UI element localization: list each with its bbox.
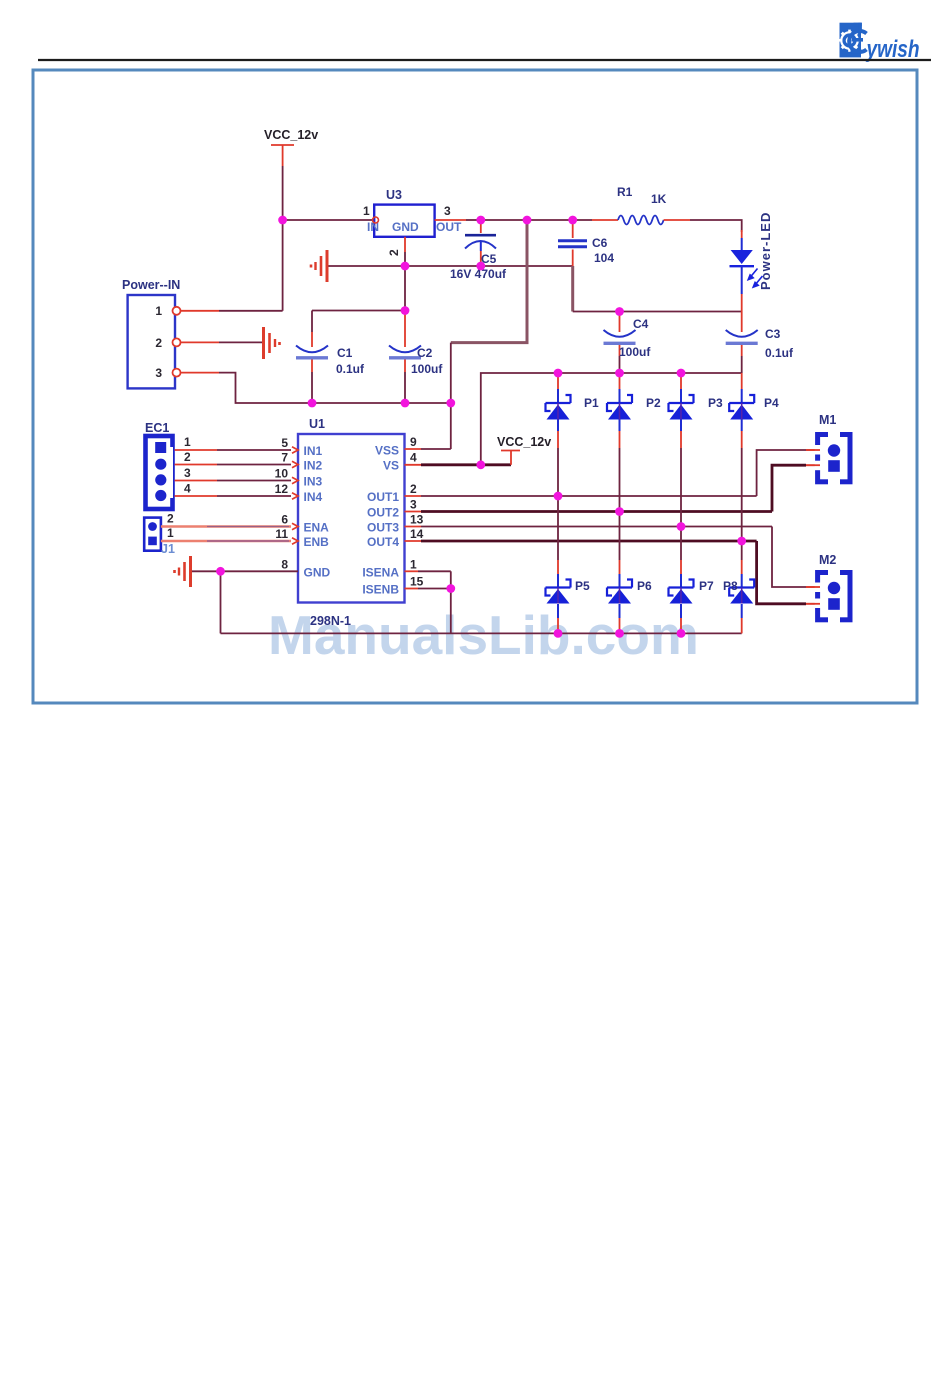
- svg-text:3: 3: [410, 498, 417, 512]
- wire gnd riser to bottom bus: [220, 571, 222, 633]
- wire node to U3 IN: [283, 219, 372, 221]
- svg-text:298N-1: 298N-1: [310, 614, 351, 628]
- junction P7 bottom: [677, 629, 686, 638]
- svg-text:Power-LED: Power-LED: [758, 212, 773, 290]
- svg-text:ywish: ywish: [866, 35, 920, 63]
- ground symbol at U1 GND: [175, 556, 191, 587]
- power flag VCC_12v top: [264, 128, 318, 166]
- wire OUT2 riser to M1 pin2: [772, 465, 818, 511]
- ground symbol at ground bus: [311, 250, 327, 282]
- svg-text:1: 1: [363, 204, 370, 218]
- wire C6 bottom down to C4 branch: [571, 266, 574, 312]
- capacitor C3: [726, 312, 794, 374]
- wire Power-IN pin1: [179, 310, 283, 312]
- svg-text:IN4: IN4: [304, 490, 323, 504]
- wire ISENB pin15: [405, 588, 451, 590]
- svg-text:13: 13: [410, 513, 424, 527]
- pin arrows U1 inputs: [292, 447, 298, 544]
- svg-text:Power--IN: Power--IN: [122, 278, 180, 292]
- Eywish logo gear icon: [839, 23, 867, 58]
- connector M1: [806, 413, 850, 485]
- svg-text:0.1uf: 0.1uf: [336, 362, 365, 376]
- svg-text:VS: VS: [383, 459, 399, 473]
- junction OUT1: [554, 492, 563, 501]
- wire OUT3 riser to M2 pin1: [772, 527, 818, 588]
- svg-text:104: 104: [594, 251, 614, 265]
- junction C5 bottom: [476, 262, 485, 271]
- svg-text:ENA: ENA: [304, 521, 330, 535]
- svg-text:1: 1: [410, 557, 417, 571]
- wire OUT3 pin13: [405, 526, 773, 528]
- wire VCC node down to Power-IN pin1 corner: [282, 220, 284, 311]
- svg-text:ENB: ENB: [304, 535, 330, 549]
- junction U3 gnd: [401, 262, 410, 271]
- svg-text:100uf: 100uf: [619, 345, 651, 359]
- wire VSS pin9: [405, 448, 451, 450]
- wire VSS riser: [450, 343, 452, 449]
- svg-text:4: 4: [184, 482, 191, 496]
- svg-text:P3: P3: [708, 396, 723, 410]
- wire R1 to LED corner: [690, 220, 742, 232]
- svg-text:M1: M1: [819, 413, 836, 427]
- wire J1 pin1 to ENB: [161, 540, 291, 543]
- svg-text:GND: GND: [392, 220, 419, 234]
- diode P6: [607, 512, 652, 634]
- svg-text:0.1uf: 0.1uf: [765, 346, 794, 360]
- svg-text:VCC_12v: VCC_12v: [264, 128, 318, 142]
- svg-text:7: 7: [281, 451, 288, 465]
- junction VCC node: [278, 216, 287, 225]
- junction ISENB: [446, 584, 455, 593]
- svg-text:5: 5: [281, 436, 288, 450]
- svg-text:J1: J1: [161, 542, 175, 556]
- wire OUT1 riser to M1 pin1: [757, 450, 818, 496]
- svg-text:EC1: EC1: [145, 421, 169, 435]
- svg-text:C2: C2: [417, 346, 433, 360]
- svg-text:OUT1: OUT1: [367, 490, 399, 504]
- svg-text:P8: P8: [723, 579, 738, 593]
- svg-text:U3: U3: [386, 188, 402, 202]
- wire OUT2 pin3: [405, 511, 773, 513]
- wire ground bus: [329, 265, 573, 267]
- node 5V thick riser from OUT rail: [451, 220, 527, 343]
- junction C1 bottom: [308, 399, 317, 408]
- junction 5V bus end: [446, 399, 455, 408]
- wire Power-IN pin3 to 5V bus: [179, 373, 312, 403]
- junction P2 top: [615, 369, 624, 378]
- junction OUT4: [737, 537, 746, 546]
- connector Power--IN: [122, 278, 181, 388]
- svg-text:C3: C3: [765, 327, 781, 341]
- diode P3: [669, 373, 724, 527]
- ground symbol at Power-IN pin2: [264, 327, 280, 359]
- junction C1 branch: [401, 306, 410, 315]
- svg-text:OUT3: OUT3: [367, 521, 399, 535]
- svg-text:14: 14: [410, 527, 424, 541]
- wire diode top bus riser: [481, 373, 558, 465]
- svg-text:M2: M2: [819, 553, 836, 567]
- junction OUT2: [615, 507, 624, 516]
- svg-text:C1: C1: [337, 346, 353, 360]
- pin number labels U1 right: [410, 435, 424, 589]
- capacitor C6: [558, 220, 614, 266]
- pin number labels U1 left: [275, 436, 289, 571]
- svg-text:1: 1: [167, 526, 174, 540]
- svg-text:IN1: IN1: [304, 444, 323, 458]
- svg-text:VSS: VSS: [375, 444, 399, 458]
- wire EC1 pin1 to IN1: [175, 449, 291, 451]
- capacitor C2: [389, 311, 443, 404]
- svg-text:1: 1: [155, 304, 162, 318]
- junction C4 top: [615, 307, 624, 316]
- junction C5 top: [476, 216, 485, 225]
- svg-text:3: 3: [184, 466, 191, 480]
- junction VS: [476, 460, 485, 469]
- wire VS pin4 to VCC: [405, 464, 512, 466]
- diode P8: [723, 541, 754, 633]
- wire ISENA pin1: [405, 570, 451, 572]
- svg-text:ISENB: ISENB: [362, 583, 399, 597]
- junction 5V riser: [523, 216, 532, 225]
- pin numbers J1: [167, 512, 174, 541]
- svg-text:C4: C4: [633, 317, 649, 331]
- svg-text:9: 9: [410, 435, 417, 449]
- junction P1 top: [554, 369, 563, 378]
- LED Power-LED: [730, 212, 774, 312]
- svg-text:6: 6: [281, 513, 288, 527]
- resistor R1: [592, 185, 690, 225]
- svg-text:ISENA: ISENA: [362, 565, 399, 579]
- svg-text:OUT2: OUT2: [367, 506, 399, 520]
- junction OUT3: [677, 522, 686, 531]
- svg-text:2: 2: [155, 336, 162, 350]
- svg-text:2: 2: [184, 450, 191, 464]
- diode P4: [729, 373, 779, 541]
- junction P5 bottom: [554, 629, 563, 638]
- power flag VCC_12v mid: [497, 435, 551, 465]
- wire U3 gnd node down to C2: [404, 266, 406, 311]
- wire OUT4 riser to M2 pin2: [757, 541, 818, 604]
- diode P7: [669, 527, 715, 634]
- junction C6 top: [568, 216, 577, 225]
- wire C1 branch: [312, 310, 405, 312]
- connector M2: [806, 553, 850, 623]
- connector J1: [144, 518, 175, 556]
- svg-text:GND: GND: [304, 565, 331, 579]
- header rule: [38, 59, 931, 61]
- svg-text:3: 3: [444, 204, 451, 218]
- svg-text:IN3: IN3: [304, 475, 323, 489]
- svg-text:1: 1: [184, 435, 191, 449]
- capacitor C5: [450, 220, 507, 281]
- svg-text:1K: 1K: [651, 192, 667, 206]
- svg-text:10: 10: [275, 467, 289, 481]
- wire EC1 pin4 to IN4: [175, 495, 291, 497]
- wire EC1 pin2 to IN2: [175, 464, 291, 466]
- diode P2: [607, 373, 661, 512]
- wire OUT4 pin14: [405, 540, 757, 542]
- wire diode top bus: [558, 372, 742, 374]
- wire OUT rail to R1: [481, 219, 592, 221]
- svg-text:P2: P2: [646, 396, 661, 410]
- svg-text:R1: R1: [617, 185, 633, 199]
- wire U3 pin2 to ground bus: [404, 237, 406, 266]
- svg-text:2: 2: [410, 482, 417, 496]
- svg-text:VCC_12v: VCC_12v: [497, 435, 551, 449]
- svg-text:OUT: OUT: [436, 220, 462, 234]
- chip U1: [298, 417, 405, 628]
- svg-text:P7: P7: [699, 579, 714, 593]
- junction C2 bottom: [401, 399, 410, 408]
- svg-text:P5: P5: [575, 579, 590, 593]
- wire bottom ground bus: [221, 632, 742, 634]
- junction P6 bottom: [615, 629, 624, 638]
- diode P1: [546, 373, 600, 496]
- capacitor C4: [604, 312, 652, 374]
- svg-text:OUT4: OUT4: [367, 535, 399, 549]
- wire OUT1 pin2: [405, 495, 757, 497]
- svg-text:3: 3: [155, 366, 162, 380]
- svg-text:8: 8: [281, 557, 288, 571]
- svg-text:P1: P1: [584, 396, 599, 410]
- wire EC1 pin3 to IN3: [175, 480, 291, 482]
- regulator U3: [363, 188, 462, 256]
- svg-text:4: 4: [410, 451, 417, 465]
- svg-text:11: 11: [275, 527, 288, 541]
- diode P5: [546, 496, 591, 633]
- junction EC1 gnd: [216, 567, 225, 576]
- wire VCC stem down to node: [282, 166, 284, 220]
- svg-text:C6: C6: [592, 236, 608, 250]
- junction P3 top: [677, 369, 686, 378]
- svg-text:P4: P4: [764, 396, 779, 410]
- wire 5V bus segment: [312, 402, 451, 404]
- wire J1 pin2 to ENA: [161, 525, 291, 528]
- wire ground to U1 GND pin8: [192, 570, 298, 572]
- wire Power-IN pin2 to ground: [179, 341, 262, 343]
- svg-text:U1: U1: [309, 417, 325, 431]
- svg-text:2: 2: [387, 249, 401, 256]
- schematic frame: [33, 70, 917, 703]
- svg-text:100uf: 100uf: [411, 362, 443, 376]
- wire branch to C3: [620, 311, 742, 313]
- capacitor C1: [296, 311, 365, 404]
- svg-text:15: 15: [410, 575, 424, 589]
- svg-text:P6: P6: [637, 579, 652, 593]
- wire U3 OUT: [435, 219, 481, 221]
- svg-text:2: 2: [167, 512, 174, 526]
- connector EC1: [145, 421, 173, 509]
- svg-text:IN2: IN2: [304, 459, 323, 473]
- pin numbers EC1: [184, 435, 191, 496]
- svg-text:12: 12: [275, 482, 289, 496]
- wire ISEN riser to ground bus: [450, 571, 452, 633]
